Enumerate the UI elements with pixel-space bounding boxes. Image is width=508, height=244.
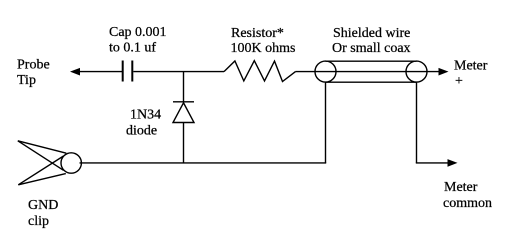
svg-text:Resistor*: Resistor* bbox=[231, 26, 284, 41]
label Shielded wire Or small coax bbox=[332, 26, 411, 56]
svg-text:Or small coax: Or small coax bbox=[332, 41, 411, 56]
wire diode to bottom rail bbox=[183, 123, 185, 163]
meter common arrow bbox=[448, 159, 458, 167]
label Meter common bbox=[443, 180, 492, 211]
svg-text:Shielded wire: Shielded wire bbox=[333, 26, 410, 41]
svg-text:100K ohms: 100K ohms bbox=[231, 41, 296, 56]
wire to meter common arrow bbox=[416, 162, 448, 164]
diode D1 1N34 bbox=[173, 102, 194, 123]
meter plus arrow bbox=[439, 68, 449, 76]
svg-text:GND: GND bbox=[28, 198, 58, 213]
svg-text:to 0.1 uf: to 0.1 uf bbox=[109, 41, 156, 56]
wire cap to resistor bbox=[133, 71, 224, 73]
wire coax left shield down bbox=[325, 82, 327, 163]
svg-text:common: common bbox=[443, 196, 492, 211]
resistor R1 100K bbox=[224, 61, 296, 82]
probe tip arrow bbox=[70, 68, 123, 76]
bottom rail wire bbox=[80, 162, 327, 164]
svg-text:1N34: 1N34 bbox=[130, 108, 161, 123]
svg-text:Cap 0.001: Cap 0.001 bbox=[109, 25, 167, 40]
svg-text:clip: clip bbox=[28, 214, 49, 229]
wire junction to diode bbox=[183, 72, 185, 102]
svg-text:Meter: Meter bbox=[454, 59, 488, 74]
label Cap 0.001 to 0.1 uf bbox=[109, 25, 167, 56]
wire coax right shield down bbox=[416, 82, 418, 163]
label Probe Tip bbox=[17, 58, 50, 89]
svg-text:Probe: Probe bbox=[17, 58, 50, 73]
shielded coax bbox=[315, 61, 427, 82]
svg-text:diode: diode bbox=[126, 124, 157, 139]
GND clip bbox=[18, 141, 82, 185]
svg-text:+: + bbox=[455, 74, 463, 89]
label 1N34 diode bbox=[126, 108, 161, 139]
capacitor C1 bbox=[123, 61, 133, 82]
svg-text:Meter: Meter bbox=[444, 180, 478, 195]
label Resistor* 100K ohms bbox=[231, 26, 296, 56]
svg-text:Tip: Tip bbox=[17, 73, 36, 88]
label Meter + bbox=[454, 59, 488, 90]
wire resistor through coax to meter arrow bbox=[296, 71, 440, 73]
label GND clip bbox=[28, 198, 58, 229]
